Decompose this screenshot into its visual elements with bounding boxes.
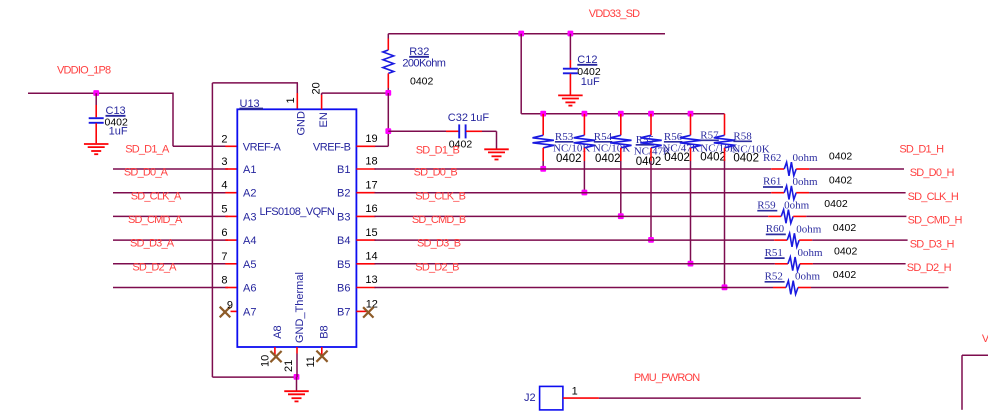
svg-text:0402: 0402: [833, 269, 857, 281]
resistor R58 bottom lead: [724, 148, 726, 161]
wire VDDIO_1P8 horizontal: [28, 92, 173, 94]
svg-text:0402: 0402: [833, 222, 857, 234]
svg-text:EN: EN: [318, 112, 330, 127]
resistor R54 bottom lead: [583, 148, 585, 161]
pin 15 stub: [356, 239, 375, 241]
U13 underline: [240, 108, 264, 110]
svg-text:R52: R52: [765, 271, 783, 283]
svg-text:0402: 0402: [410, 76, 434, 88]
svg-text:J2: J2: [524, 392, 536, 404]
wire R52 to net stub right: [811, 287, 949, 289]
junction rail drop: [518, 31, 524, 37]
ground below C32: [484, 148, 509, 150]
svg-text:A8: A8: [272, 325, 284, 338]
svg-text:SD_D2_A: SD_D2_A: [132, 261, 177, 273]
capacitor C13 lower lead: [95, 123, 97, 143]
resistor R60 left lead: [774, 239, 787, 241]
svg-text:SD_CLK_B: SD_CLK_B: [415, 190, 465, 202]
resistor R51 right lead: [800, 263, 813, 265]
wire B4 row left: [375, 239, 775, 241]
svg-text:10: 10: [260, 355, 272, 367]
resistor R61 body: [784, 186, 796, 200]
svg-text:SD_D3_A: SD_D3_A: [130, 238, 175, 250]
wire R61 to net stub right: [809, 192, 905, 194]
pin 14 stub: [356, 263, 375, 265]
junction R53 on row: [540, 166, 546, 172]
svg-text:SD_CMD_H: SD_CMD_H: [908, 215, 963, 227]
pin 13 stub: [356, 287, 375, 289]
svg-text:B2: B2: [337, 188, 350, 200]
pin 12 stub B7: [356, 310, 367, 312]
svg-text:A4: A4: [243, 235, 256, 247]
ground below C13: [84, 143, 109, 145]
svg-text:SD_CMD_A: SD_CMD_A: [128, 214, 183, 226]
svg-text:VDDIO_1P8: VDDIO_1P8: [57, 65, 111, 77]
pin 9 stub A7: [231, 310, 238, 312]
capacitor C32 left lead: [446, 130, 459, 132]
svg-text:A5: A5: [243, 259, 256, 271]
capacitor C13 upper wire: [95, 93, 97, 105]
wire B6 row left: [375, 287, 774, 289]
svg-text:R60: R60: [766, 223, 785, 235]
svg-text:B5: B5: [337, 259, 350, 271]
svg-text:2: 2: [221, 133, 227, 145]
resistor R60 body: [787, 233, 799, 247]
wire GND pin1 top horizontal: [212, 82, 298, 84]
junction R55 on row: [618, 213, 624, 219]
svg-text:0ohm: 0ohm: [796, 223, 822, 235]
ground below U13: [284, 390, 309, 392]
svg-text:B8: B8: [318, 325, 330, 338]
svg-text:4: 4: [221, 180, 227, 192]
wire to C32: [388, 130, 446, 132]
svg-text:18: 18: [365, 156, 377, 168]
resistor R55 top lead: [620, 114, 622, 136]
wire frame horizontal bottom-right: [962, 354, 988, 356]
svg-text:SD_D1_A: SD_D1_A: [125, 143, 170, 155]
svg-text:B6: B6: [337, 283, 350, 295]
svg-text:17: 17: [365, 179, 377, 191]
svg-text:8: 8: [221, 275, 227, 287]
junction R53 on sub-rail: [540, 111, 546, 117]
pin 20 stub EN: [321, 95, 323, 110]
svg-text:A1: A1: [243, 164, 256, 176]
svg-text:6: 6: [221, 227, 227, 239]
pin 21 stub GND_Thermal: [296, 347, 298, 354]
junction R32/EN: [385, 90, 391, 96]
wire to pin 1: [296, 83, 298, 94]
wire R53 to row: [542, 161, 544, 169]
svg-text:0402: 0402: [829, 174, 853, 186]
svg-text:15: 15: [365, 227, 377, 239]
svg-text:0ohm: 0ohm: [784, 200, 810, 212]
J2 pin 1 stub: [563, 397, 599, 399]
wire R56 to row: [650, 161, 652, 240]
junction R56 on row: [648, 237, 654, 243]
no-connect X pin 10: [270, 351, 281, 362]
junction C32 branch: [385, 128, 391, 134]
resistor R62 right lead: [796, 168, 809, 170]
wire bend down to VREF-A: [172, 93, 174, 147]
no-connect X pin 12: [363, 307, 373, 317]
wire pull-up sub-rail: [521, 113, 724, 115]
wire B5 row left: [375, 263, 775, 265]
junction R56 on sub-rail: [648, 111, 654, 117]
wire R55 to row: [620, 161, 622, 216]
svg-text:0ohm: 0ohm: [795, 271, 821, 283]
resistor R32 body: [383, 50, 394, 73]
junction GND bottom: [294, 374, 300, 380]
pin 2 stub: [225, 145, 237, 147]
svg-text:C32: C32: [448, 112, 468, 124]
svg-text:0402: 0402: [556, 153, 582, 165]
wire A4 row: [113, 239, 228, 241]
wire EN to R32 node: [322, 92, 389, 94]
wire A3 row: [113, 215, 228, 217]
resistor R51 left lead: [775, 263, 788, 265]
pin 16 stub: [356, 215, 375, 217]
pin 11 stub B8: [321, 347, 323, 356]
wire R62 to net stub right: [809, 168, 904, 170]
capacitor C32 right lead: [466, 130, 482, 132]
svg-text:SD_D0_H: SD_D0_H: [910, 167, 955, 179]
svg-text:SD_D2_H: SD_D2_H: [907, 262, 952, 274]
wire A5 row: [113, 263, 228, 265]
wire to pin 19: [375, 145, 389, 147]
svg-text:0402: 0402: [636, 156, 662, 168]
pin 1 stub: [296, 93, 298, 109]
svg-text:B1: B1: [337, 164, 350, 176]
resistor R53 bottom lead: [542, 148, 544, 161]
junction C12 on rail: [568, 31, 574, 37]
wire R54 to row: [583, 161, 585, 193]
svg-text:R62: R62: [763, 152, 781, 164]
resistor R56 bottom lead: [650, 148, 652, 161]
pin 8 stub: [225, 287, 237, 289]
wire rail to R32: [387, 34, 389, 39]
svg-text:3: 3: [221, 156, 227, 168]
svg-text:SD_D3_H: SD_D3_H: [910, 238, 955, 250]
svg-text:14: 14: [365, 251, 377, 263]
pin 7 stub: [225, 263, 237, 265]
capacitor C32 plates: [458, 124, 460, 138]
resistor R58 body: [714, 135, 735, 148]
resistor R57 bottom lead: [690, 148, 692, 161]
svg-text:B4: B4: [337, 235, 350, 247]
svg-text:1uF: 1uF: [581, 76, 600, 88]
svg-text:A2: A2: [243, 188, 256, 200]
wire pin 21 to ground junction: [296, 354, 298, 378]
pin 3 stub: [225, 168, 237, 170]
resistor R56 body: [640, 135, 661, 148]
svg-text:GND_Thermal: GND_Thermal: [294, 272, 306, 343]
svg-text:SD_CLK_A: SD_CLK_A: [131, 190, 182, 202]
svg-text:A7: A7: [243, 306, 256, 318]
svg-text:SD_D1_B: SD_D1_B: [416, 145, 460, 157]
capacitor C12 plates: [563, 68, 578, 70]
svg-text:A3: A3: [243, 211, 256, 223]
svg-text:B3: B3: [337, 211, 350, 223]
wire R58 to row: [724, 161, 726, 288]
svg-text:200Kohm: 200Kohm: [402, 58, 445, 70]
wire GND stem to ground: [296, 377, 298, 391]
svg-text:V: V: [982, 333, 988, 345]
svg-text:0402: 0402: [595, 153, 621, 165]
junction R57 on row: [688, 261, 694, 267]
svg-text:19: 19: [365, 133, 377, 145]
resistor R55 bottom lead: [620, 148, 622, 161]
svg-text:LFS0108_VQFN: LFS0108_VQFN: [260, 206, 335, 218]
junction R57 on sub-rail: [688, 111, 694, 117]
svg-text:5: 5: [221, 203, 227, 215]
svg-text:0402: 0402: [829, 151, 853, 163]
wire PMU_PWRON: [599, 397, 861, 399]
resistor R56 top lead: [650, 114, 652, 136]
resistor R59 body: [781, 210, 793, 224]
svg-text:VREF-A: VREF-A: [243, 141, 282, 153]
svg-text:R59: R59: [757, 199, 776, 211]
wire down to ground: [496, 131, 498, 148]
svg-text:0ohm: 0ohm: [793, 176, 819, 188]
resistor R57 body: [680, 135, 701, 148]
svg-text:1uF: 1uF: [109, 126, 128, 138]
resistor R61 right lead: [796, 192, 809, 194]
svg-text:GND: GND: [296, 111, 308, 136]
resistor R59 left lead: [768, 215, 781, 217]
resistor R58 top lead: [724, 114, 726, 136]
pin 4 stub: [225, 192, 237, 194]
svg-text:SD_D0_A: SD_D0_A: [124, 167, 169, 179]
C12 underline: [577, 64, 597, 66]
svg-text:1uF: 1uF: [470, 112, 489, 124]
svg-text:SD_D1_H: SD_D1_H: [899, 144, 944, 156]
svg-text:1: 1: [285, 97, 297, 103]
pin 18 stub: [356, 168, 375, 170]
svg-text:VDD33_SD: VDD33_SD: [589, 8, 640, 20]
svg-text:13: 13: [365, 274, 377, 286]
svg-text:SD_CLK_H: SD_CLK_H: [908, 191, 959, 203]
capacitor C12 lower lead: [569, 74, 571, 95]
wire R51 to net stub right: [813, 263, 906, 265]
wire down to VREF-B: [387, 93, 389, 146]
svg-text:SD_D3_B: SD_D3_B: [417, 238, 461, 250]
resistor R60 right lead: [799, 239, 812, 241]
no-connect X pin 11: [316, 351, 327, 362]
op-amp U13 LFS0108_VQFN body: [237, 109, 356, 347]
resistor R54 body: [574, 135, 595, 148]
svg-text:9: 9: [227, 300, 233, 312]
junction R54 on row: [582, 190, 588, 196]
wire GND vertical left side: [211, 83, 213, 377]
resistor R52 left lead: [773, 287, 786, 289]
resistor R51 body: [788, 257, 800, 271]
svg-text:0402: 0402: [824, 198, 848, 210]
resistor R32 top lead: [387, 39, 389, 51]
capacitor C13 plates: [89, 117, 104, 119]
wire R57 to row: [690, 161, 692, 264]
svg-text:0402: 0402: [834, 246, 858, 258]
svg-text:0ohm: 0ohm: [793, 152, 819, 164]
svg-text:PMU_PWRON: PMU_PWRON: [634, 372, 700, 384]
junction VDDIO/C13: [93, 90, 99, 96]
svg-text:0ohm: 0ohm: [798, 247, 824, 259]
resistor R59 right lead: [793, 215, 806, 217]
wire frame vertical bottom-right: [961, 355, 963, 410]
svg-text:SD_D0_B: SD_D0_B: [414, 167, 458, 179]
wire EN vertical: [321, 93, 323, 95]
resistor R52 right lead: [798, 287, 811, 289]
wire GND bottom horizontal: [212, 376, 296, 378]
svg-text:SD_D2_B: SD_D2_B: [415, 261, 459, 273]
junction R58 on row: [722, 284, 728, 290]
wire VDD33_SD rail: [388, 33, 665, 35]
svg-text:A6: A6: [243, 283, 256, 295]
wire A1 row: [113, 168, 228, 170]
svg-text:1: 1: [572, 386, 578, 398]
svg-text:0402: 0402: [664, 152, 690, 164]
svg-text:0402: 0402: [733, 153, 759, 165]
svg-text:21: 21: [283, 360, 295, 372]
resistor R32 bottom lead: [387, 73, 389, 88]
junction R54 on sub-rail: [582, 111, 588, 117]
junction R55 on sub-rail: [618, 111, 624, 117]
svg-text:7: 7: [221, 251, 227, 263]
resistor R62 left lead: [771, 168, 784, 170]
svg-text:20: 20: [310, 82, 322, 94]
svg-text:B7: B7: [337, 306, 350, 318]
wire R59 to net stub right: [806, 215, 906, 217]
pin 5 stub: [225, 215, 237, 217]
svg-text:VREF-B: VREF-B: [313, 141, 351, 153]
svg-text:R51: R51: [765, 247, 783, 259]
resistor R54 top lead: [583, 114, 585, 136]
wire R60 to net stub right: [812, 239, 907, 241]
wire A2 row: [113, 192, 228, 194]
ground below C12: [558, 94, 583, 96]
resistor R55 body: [610, 135, 631, 148]
resistor R53 body: [533, 135, 554, 148]
C13 underline: [106, 115, 126, 117]
capacitor C12 upper wire: [569, 34, 571, 60]
resistor R53 top lead: [542, 114, 544, 136]
svg-text:16: 16: [365, 203, 377, 215]
wire B2 row left: [375, 192, 772, 194]
connector J2: [540, 386, 563, 410]
wire A6 row: [113, 287, 228, 289]
pin 19 stub: [356, 145, 375, 147]
resistor R61 left lead: [771, 192, 784, 194]
pin 6 stub: [225, 239, 237, 241]
svg-text:11: 11: [305, 356, 317, 367]
wire C32 to ground bend: [482, 130, 497, 132]
wire B3 row left: [375, 215, 769, 217]
wire B1 row left: [375, 168, 772, 170]
wire rail drop vertical: [520, 34, 522, 114]
resistor R57 top lead: [690, 114, 692, 136]
pin 17 stub: [356, 192, 375, 194]
svg-text:0402: 0402: [700, 152, 726, 164]
wire to pin 2 VREF-A: [173, 145, 228, 147]
no-connect X pin 9: [220, 307, 231, 318]
pin 10 stub A8: [274, 347, 276, 356]
R32 underline: [409, 56, 429, 58]
svg-text:SD_CMD_B: SD_CMD_B: [412, 214, 466, 226]
resistor R62 body: [784, 162, 796, 176]
resistor R52 body: [786, 281, 798, 295]
svg-text:R61: R61: [763, 176, 781, 188]
